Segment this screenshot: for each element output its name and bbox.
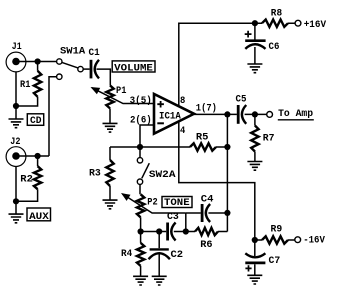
svg-text:IC1A: IC1A: [159, 111, 181, 123]
svg-text:-16V: -16V: [303, 234, 325, 246]
svg-text:TONE: TONE: [164, 197, 190, 209]
svg-text:C2: C2: [171, 249, 184, 261]
svg-text:J1: J1: [12, 41, 22, 53]
svg-text:SW1A: SW1A: [60, 46, 86, 58]
svg-text:+16V: +16V: [304, 19, 327, 31]
svg-text:P1: P1: [116, 85, 126, 97]
svg-text:R2: R2: [20, 174, 33, 186]
svg-text:R3: R3: [89, 168, 101, 180]
svg-text:2(6): 2(6): [130, 114, 152, 126]
svg-text:C1: C1: [89, 47, 100, 59]
svg-text:R7: R7: [263, 133, 275, 145]
svg-text:R5: R5: [196, 131, 209, 143]
svg-text:R4: R4: [121, 248, 132, 260]
svg-text:C4: C4: [201, 194, 214, 206]
svg-text:C6: C6: [269, 41, 280, 53]
svg-text:R8: R8: [271, 8, 282, 20]
svg-text:SW2A: SW2A: [149, 169, 176, 181]
svg-text:8: 8: [180, 95, 185, 107]
svg-text:CD: CD: [30, 115, 42, 127]
svg-text:3(5): 3(5): [130, 95, 152, 107]
svg-text:R9: R9: [271, 223, 283, 235]
svg-text:C7: C7: [269, 255, 281, 267]
svg-text:R6: R6: [200, 239, 212, 251]
svg-text:VOLUME: VOLUME: [114, 62, 153, 74]
svg-text:To Amp: To Amp: [278, 108, 313, 120]
svg-text:4: 4: [180, 125, 185, 137]
svg-text:P2: P2: [147, 196, 157, 208]
svg-text:C5: C5: [236, 94, 247, 106]
svg-text:1(7): 1(7): [196, 103, 217, 115]
svg-text:AUX: AUX: [29, 211, 49, 223]
svg-text:C3: C3: [167, 211, 179, 223]
svg-text:J2: J2: [10, 136, 20, 148]
svg-text:R1: R1: [20, 79, 30, 91]
